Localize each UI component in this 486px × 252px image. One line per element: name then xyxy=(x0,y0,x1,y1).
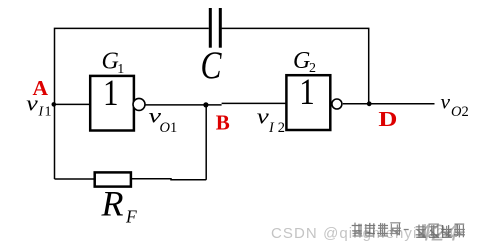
resistor RF body xyxy=(95,172,131,186)
node D junction dot xyxy=(367,101,372,106)
svg-text:O: O xyxy=(451,104,462,120)
svg-text:v: v xyxy=(257,104,269,129)
svg-text:D: D xyxy=(378,107,397,131)
watermark overlay pseudo-CJK band xyxy=(352,223,465,238)
inverter gate G1 box xyxy=(90,76,134,131)
svg-text:1: 1 xyxy=(299,71,315,112)
wire bottom feedback left segment xyxy=(55,178,94,180)
capacitor C plates xyxy=(209,8,222,48)
svg-text:R: R xyxy=(101,184,124,224)
svg-text:2: 2 xyxy=(462,104,469,120)
svg-text:B: B xyxy=(216,110,230,134)
wire bottom feedback right segment xyxy=(132,179,206,180)
wire input A to gate G1 xyxy=(54,103,90,105)
svg-text:1: 1 xyxy=(170,120,177,136)
wire G2 output through node D to vO2 xyxy=(343,103,435,105)
svg-text:2: 2 xyxy=(278,120,285,136)
svg-text:1: 1 xyxy=(117,62,124,77)
svg-text:2: 2 xyxy=(309,61,316,76)
svg-text:C: C xyxy=(201,44,223,87)
wire node B drop to feedback loop xyxy=(205,105,207,180)
svg-text:F: F xyxy=(125,206,137,226)
svg-text:G: G xyxy=(293,48,310,74)
wire top-left horizontal (node A rail to capacitor) xyxy=(55,28,209,179)
gate G1 output bubble xyxy=(133,98,145,110)
wire node B to gate G2 input xyxy=(222,102,287,104)
svg-text:v: v xyxy=(441,90,451,114)
gate G2 output bubble xyxy=(332,99,342,109)
wire top-right horizontal (capacitor to node D drop) xyxy=(222,28,369,103)
node A junction dot xyxy=(52,102,57,107)
svg-text:O: O xyxy=(160,120,171,136)
wire G1 output bubble to node B xyxy=(145,104,221,106)
svg-text:G: G xyxy=(102,49,119,75)
svg-text:v: v xyxy=(26,91,38,116)
node B junction dot xyxy=(203,102,208,107)
svg-text:1: 1 xyxy=(103,72,119,113)
inverter gate G2 box xyxy=(286,75,330,130)
svg-text:1: 1 xyxy=(45,105,52,120)
